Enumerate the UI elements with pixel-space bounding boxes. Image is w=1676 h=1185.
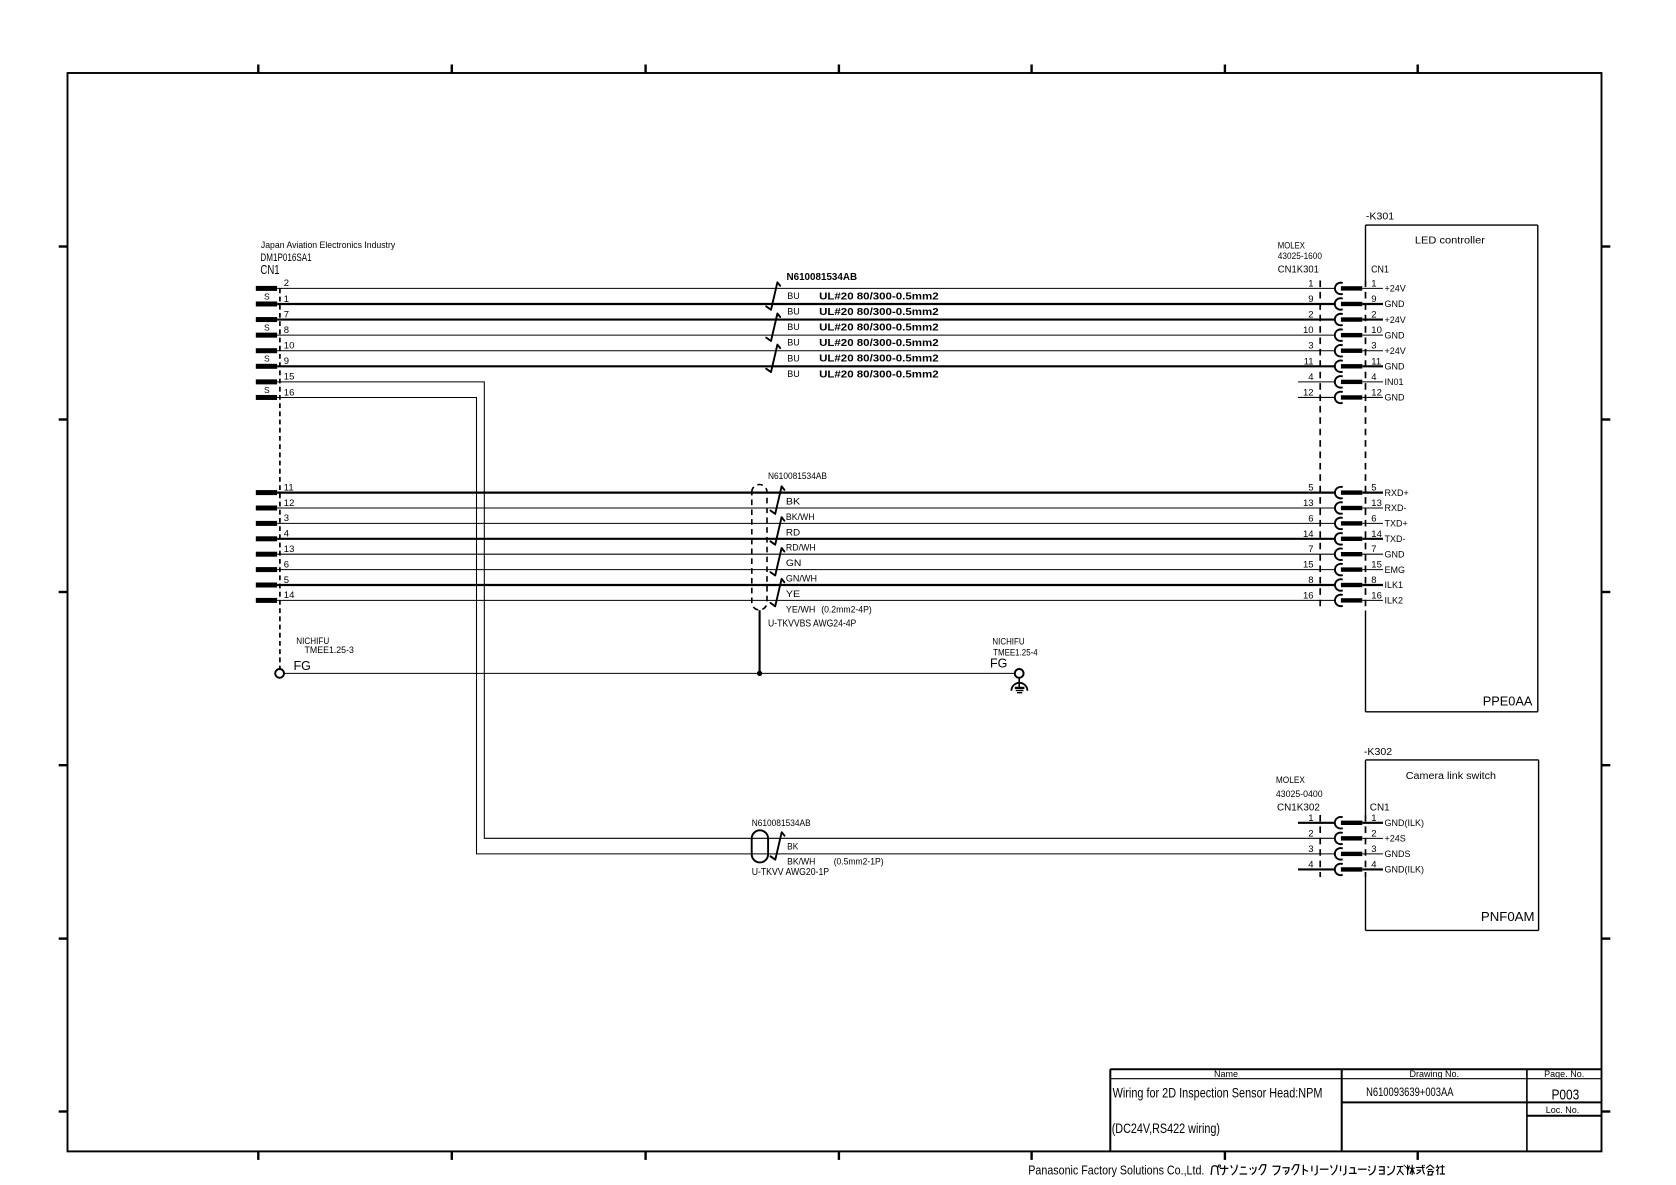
CN1 pin 9 — [256, 356, 289, 369]
svg-text:GND: GND — [1385, 393, 1406, 403]
svg-text:1: 1 — [1308, 278, 1313, 289]
CN1 pin 4 — [256, 529, 289, 542]
wire colour label BK — [786, 497, 801, 508]
svg-text:-K302: -K302 — [1364, 746, 1392, 758]
shield label S pair 4 — [264, 385, 270, 395]
K301 CN1 pin 16 ILK2 — [1303, 590, 1403, 606]
svg-text:8: 8 — [1371, 575, 1376, 586]
svg-text:16: 16 — [1371, 590, 1382, 601]
svg-text:GND(ILK): GND(ILK) — [1385, 818, 1425, 828]
FG wire — [284, 672, 1015, 674]
svg-text:EMG: EMG — [1385, 565, 1406, 575]
svg-text:BK/WH: BK/WH — [787, 857, 815, 868]
svg-text:15: 15 — [284, 372, 295, 383]
svg-text:14: 14 — [1371, 529, 1382, 540]
K301 CN1 pin 14 TXD- — [1303, 529, 1405, 545]
svg-text:CN1K301: CN1K301 — [1278, 264, 1319, 276]
shield label S pair 2 — [264, 322, 270, 332]
wire colour label BK/WH — [786, 512, 815, 523]
CN1 pin 6 — [256, 559, 289, 572]
svg-text:UL#20 80/300-0.5mm2: UL#20 80/300-0.5mm2 — [819, 337, 939, 349]
svg-text:15: 15 — [1303, 560, 1314, 571]
svg-text:Page. No.: Page. No. — [1544, 1069, 1584, 1079]
svg-text:(DC24V,RS422 wiring): (DC24V,RS422 wiring) — [1112, 1120, 1220, 1136]
wire colour label RD/WH — [786, 543, 816, 554]
svg-text:+24V: +24V — [1385, 346, 1406, 356]
svg-text:2: 2 — [1371, 828, 1376, 839]
svg-text:N610081534AB: N610081534AB — [752, 818, 811, 829]
svg-text:3: 3 — [284, 513, 289, 524]
CN1 pin 5 — [256, 575, 289, 588]
svg-text:43025-0400: 43025-0400 — [1276, 789, 1323, 799]
svg-text:16: 16 — [1303, 590, 1314, 601]
svg-text:PPE0AA: PPE0AA — [1483, 694, 1533, 708]
svg-text:RXD-: RXD- — [1385, 503, 1407, 513]
junction drain to FG wire — [757, 671, 762, 676]
svg-text:FG: FG — [990, 656, 1007, 670]
svg-text:Wiring for 2D Inspection Senso: Wiring for 2D Inspection Sensor Head:NPM — [1113, 1084, 1323, 1100]
CN1 pin 7 — [256, 309, 289, 322]
svg-text:4: 4 — [1308, 859, 1313, 870]
svg-text:GN: GN — [786, 558, 802, 569]
K302 CN1 pin 3 GNDS — [1308, 844, 1410, 860]
wire label BU UL#20 row 5 — [787, 353, 938, 365]
svg-text:43025-1600: 43025-1600 — [1278, 251, 1322, 261]
svg-text:BU: BU — [787, 291, 800, 301]
svg-text:Loc. No.: Loc. No. — [1546, 1105, 1580, 1115]
svg-text:BK: BK — [786, 497, 801, 508]
svg-text:N610081534AB: N610081534AB — [787, 271, 858, 283]
svg-text:11: 11 — [1304, 356, 1314, 367]
shield label S pair 3 — [264, 354, 270, 364]
svg-text:U-TKVVBS AWG24-4P: U-TKVVBS AWG24-4P — [768, 619, 857, 630]
earth ground symbol — [1011, 678, 1027, 693]
svg-text:GND(ILK): GND(ILK) — [1385, 865, 1425, 875]
svg-text:13: 13 — [1371, 498, 1382, 509]
svg-text:UL#20 80/300-0.5mm2: UL#20 80/300-0.5mm2 — [819, 322, 939, 334]
svg-text:S: S — [264, 322, 270, 332]
svg-text:S: S — [264, 291, 270, 301]
wire pin13-K301.7 GND — [277, 553, 1335, 555]
wire pin2-K301.1 (BU) — [277, 287, 1335, 289]
svg-text:7: 7 — [1308, 544, 1313, 555]
footer company caption — [1028, 1163, 1445, 1178]
wire pin9-K301.11 (BU) — [277, 365, 1335, 367]
svg-text:S: S — [264, 354, 270, 364]
svg-text:11: 11 — [1371, 356, 1381, 367]
wire pin14-K301.16 ILK2 — [277, 599, 1335, 601]
svg-text:7: 7 — [1371, 544, 1376, 555]
svg-text:4: 4 — [1308, 372, 1313, 383]
K301 CN1 pin 10 GND — [1303, 325, 1405, 341]
connector CN1 (JAE DM1P016SA1) labels — [260, 240, 395, 277]
svg-text:FG: FG — [294, 659, 311, 673]
svg-text:GNDS: GNDS — [1385, 849, 1411, 859]
K301 CN1 pin 11 GND — [1304, 356, 1405, 372]
wire pin11-K301.5 RXD+ — [277, 492, 1335, 494]
wire pin10-K301.3 (BU) — [277, 350, 1335, 352]
svg-text:YE/WH: YE/WH — [786, 604, 816, 615]
svg-text:BK: BK — [787, 842, 799, 853]
connector CN1K301 labels — [1278, 241, 1389, 276]
wire pin3-K301.6 TXD+ — [277, 522, 1335, 524]
svg-text:P003: P003 — [1551, 1087, 1579, 1104]
svg-text:RXD+: RXD+ — [1385, 488, 1409, 498]
wire colour label GN — [786, 558, 802, 569]
svg-text:BU: BU — [787, 338, 800, 348]
CN1 pin 15 — [256, 372, 295, 385]
svg-text:UL#20 80/300-0.5mm2: UL#20 80/300-0.5mm2 — [819, 353, 939, 365]
wire colour label RD — [786, 527, 800, 538]
CN1 pin 3 — [256, 513, 289, 526]
svg-text:12: 12 — [1371, 387, 1382, 398]
wire pin16 to K302 pin3 — [277, 398, 1335, 854]
svg-text:N610081534AB: N610081534AB — [768, 471, 827, 482]
twisted pair mark middle pair 3 — [770, 548, 784, 576]
svg-text:13: 13 — [1303, 498, 1314, 509]
svg-text:GND: GND — [1385, 299, 1406, 309]
svg-text:MOLEX: MOLEX — [1276, 775, 1305, 785]
svg-text:9: 9 — [1371, 294, 1376, 305]
svg-text:8: 8 — [1308, 575, 1313, 586]
cable shield oval N610081534AB (U-TKVVBS) — [752, 471, 857, 629]
wire colour label YE — [786, 589, 800, 600]
svg-text:1: 1 — [1308, 813, 1313, 824]
svg-text:BU: BU — [787, 307, 800, 317]
svg-text:3: 3 — [1371, 844, 1376, 855]
connector CN1K301 dashed boundaries — [1320, 281, 1365, 611]
connector CN1K302 labels — [1276, 775, 1390, 813]
svg-text:MOLEX: MOLEX — [1278, 241, 1305, 251]
svg-text:TMEE1.25-3: TMEE1.25-3 — [305, 645, 354, 655]
svg-text:Camera link switch: Camera link switch — [1406, 771, 1496, 782]
CN1 pin 2 — [256, 278, 289, 291]
svg-text:15: 15 — [1371, 560, 1382, 571]
wire label BU UL#20 row 4 — [787, 337, 938, 349]
svg-text:12: 12 — [284, 498, 295, 509]
K302 CN1 pin 1 GND(ILK) — [1298, 813, 1424, 829]
connector CN1 body dashed line — [279, 288, 281, 669]
svg-text:14: 14 — [1303, 529, 1314, 540]
svg-text:GND: GND — [1385, 362, 1406, 372]
wire pin8-K301.10 (BU) — [277, 334, 1335, 336]
svg-text:BK/WH: BK/WH — [786, 512, 815, 523]
twisted pair mark lower cable — [771, 832, 785, 860]
svg-text:BU: BU — [787, 322, 800, 332]
svg-text:4: 4 — [1371, 859, 1376, 870]
svg-text:2: 2 — [1308, 828, 1313, 839]
K301 CN1 pin 12 GND — [1298, 387, 1405, 403]
K301 CN1 pin 3 +24V — [1308, 341, 1405, 357]
svg-text:UL#20 80/300-0.5mm2: UL#20 80/300-0.5mm2 — [819, 290, 939, 302]
wire pin15 to K302 pin2 — [277, 382, 1335, 838]
svg-text:RD/WH: RD/WH — [786, 543, 816, 554]
wire label BU UL#20 row 2 — [787, 306, 938, 318]
svg-text:8: 8 — [284, 325, 289, 336]
CN1 pin 16 — [256, 387, 295, 400]
svg-text:UL#20 80/300-0.5mm2: UL#20 80/300-0.5mm2 — [819, 306, 939, 318]
cable N610081534AB (U-TKVV) oval — [752, 818, 830, 878]
K301 CN1 pin 15 EMG — [1303, 560, 1405, 576]
twisted pair mark top pair 2 — [766, 314, 780, 342]
svg-text:S: S — [264, 385, 270, 395]
svg-text:CN1: CN1 — [1371, 264, 1389, 276]
svg-text:3: 3 — [1308, 341, 1313, 352]
wire label BU UL#20 row 3 — [787, 322, 938, 334]
svg-text:4: 4 — [1371, 372, 1376, 383]
K302 CN1 pin 2 +24S — [1308, 828, 1405, 844]
wire label BU UL#20 row 6 — [787, 368, 938, 380]
svg-text:LED controller: LED controller — [1415, 235, 1486, 246]
twisted pair mark top pair 3 — [766, 345, 780, 373]
svg-text:+24V: +24V — [1385, 315, 1406, 325]
svg-text:Japan Aviation Electronics Ind: Japan Aviation Electronics Industry — [261, 240, 396, 251]
svg-text:6: 6 — [1308, 513, 1313, 524]
svg-text:YE: YE — [786, 589, 800, 600]
wire pin6-K301.15 EMG — [277, 569, 1335, 571]
svg-text:(0.5mm2-1P): (0.5mm2-1P) — [834, 857, 884, 868]
wire pin4-K301.14 TXD- — [277, 538, 1335, 540]
svg-text:2: 2 — [1308, 310, 1313, 321]
svg-text:ILK2: ILK2 — [1385, 596, 1404, 606]
wire label BU UL#20 row 1 — [787, 290, 938, 302]
svg-text:6: 6 — [284, 559, 289, 570]
CN1 pin 8 — [256, 325, 289, 338]
CN1 pin 10 — [256, 341, 295, 354]
svg-text:GN/WH: GN/WH — [786, 574, 817, 585]
wire pin12-K301.13 RXD- — [277, 507, 1335, 509]
svg-text:U-TKVV AWG20-1P: U-TKVV AWG20-1P — [752, 867, 830, 878]
svg-text:2: 2 — [1371, 310, 1376, 321]
svg-text:ILK1: ILK1 — [1385, 580, 1404, 590]
title block — [1110, 1069, 1601, 1151]
svg-text:14: 14 — [284, 590, 295, 601]
svg-text:13: 13 — [284, 544, 295, 555]
Camera link switch box -K302 — [1364, 746, 1539, 930]
svg-text:2: 2 — [284, 278, 289, 289]
K301 CN1 pin 8 ILK1 — [1308, 575, 1403, 591]
svg-text:16: 16 — [284, 387, 295, 398]
wire colour label BK/WH — [787, 857, 884, 868]
svg-text:1: 1 — [1371, 278, 1376, 289]
svg-text:UL#20 80/300-0.5mm2: UL#20 80/300-0.5mm2 — [819, 368, 939, 380]
svg-text:10: 10 — [1371, 325, 1382, 336]
connector CN1K302 dashed boundaries — [1320, 815, 1365, 877]
svg-text:TXD+: TXD+ — [1385, 519, 1408, 529]
K301 CN1 pin 2 +24V — [1308, 310, 1405, 326]
svg-text:12: 12 — [1303, 387, 1314, 398]
wire pin5-K301.8 ILK1 — [277, 584, 1335, 586]
svg-text:CN1: CN1 — [260, 262, 279, 277]
svg-text:Panasonic Factory Solutions Co: Panasonic Factory Solutions Co.,Ltd. — [1028, 1163, 1204, 1178]
svg-text:(0.2mm2-4P): (0.2mm2-4P) — [821, 604, 872, 615]
CN1 pin 14 — [256, 590, 295, 603]
wire pin1-K301.9 (BU) — [277, 303, 1335, 305]
wire pin7-K301.2 (BU) — [277, 318, 1335, 320]
svg-text:5: 5 — [1371, 483, 1376, 494]
CN1 pin 12 — [256, 498, 295, 511]
FG ring terminal right (NICHIFU TMEE1.25-4) — [990, 637, 1038, 678]
svg-text:TXD-: TXD- — [1385, 534, 1406, 544]
K301 CN1 pin 6 TXD+ — [1308, 513, 1407, 529]
svg-text:CN1K302: CN1K302 — [1277, 802, 1320, 814]
svg-text:GND: GND — [1385, 549, 1406, 559]
LED controller box -K301 — [1366, 210, 1538, 711]
K301 CN1 pin 7 GND — [1308, 544, 1405, 560]
svg-text:Name: Name — [1214, 1069, 1238, 1079]
title block texts — [1112, 1069, 1585, 1136]
K301 CN1 pin 13 RXD- — [1303, 498, 1406, 514]
twisted pair mark middle pair 4 — [770, 579, 784, 607]
svg-text:3: 3 — [1308, 844, 1313, 855]
svg-text:10: 10 — [1303, 325, 1314, 336]
svg-text:+24S: +24S — [1385, 834, 1406, 844]
svg-text:10: 10 — [284, 341, 295, 352]
CN1 pin 13 — [256, 544, 295, 557]
CN1 pin 11 — [256, 482, 294, 495]
K301 CN1 pin 4 IN01 — [1298, 372, 1404, 388]
svg-text:N610093639+003AA: N610093639+003AA — [1366, 1087, 1454, 1099]
svg-text:BU: BU — [787, 369, 800, 379]
wire colour label BK — [787, 842, 799, 853]
shield label S pair 1 — [264, 291, 270, 301]
wire colour label YE/WH — [786, 604, 872, 615]
svg-text:1: 1 — [1371, 813, 1376, 824]
K302 CN1 pin 4 GND(ILK) — [1298, 859, 1424, 875]
CN1 pin 1 — [256, 294, 289, 307]
cable label N610081534AB (top) — [787, 271, 858, 283]
svg-text:IN01: IN01 — [1385, 377, 1404, 387]
twisted pair mark middle pair 1 — [770, 486, 784, 514]
svg-text:BU: BU — [787, 353, 800, 363]
svg-text:3: 3 — [1371, 341, 1376, 352]
svg-text:PNF0AM: PNF0AM — [1481, 910, 1535, 924]
K301 CN1 pin 1 +24V — [1308, 278, 1405, 294]
svg-text:5: 5 — [1308, 483, 1313, 494]
FG ring terminal left (NICHIFU TMEE1.25-3) — [275, 636, 354, 678]
svg-text:RD: RD — [786, 527, 800, 538]
svg-text:-K301: -K301 — [1366, 210, 1394, 222]
svg-text:CN1: CN1 — [1370, 802, 1390, 814]
svg-text:Drawing No.: Drawing No. — [1410, 1069, 1460, 1079]
wire colour label GN/WH — [786, 574, 817, 585]
svg-text:+24V: +24V — [1385, 284, 1406, 294]
twisted pair mark middle pair 2 — [770, 517, 784, 545]
shield drain wire — [759, 610, 761, 673]
svg-text:9: 9 — [1308, 294, 1313, 305]
svg-text:6: 6 — [1371, 513, 1376, 524]
svg-text:GND: GND — [1385, 330, 1406, 340]
K301 CN1 pin 9 GND — [1308, 294, 1405, 310]
K301 CN1 pin 5 RXD+ — [1308, 483, 1408, 499]
twisted pair mark top pair 1 — [766, 282, 780, 310]
svg-text:NICHIFU: NICHIFU — [992, 637, 1024, 647]
